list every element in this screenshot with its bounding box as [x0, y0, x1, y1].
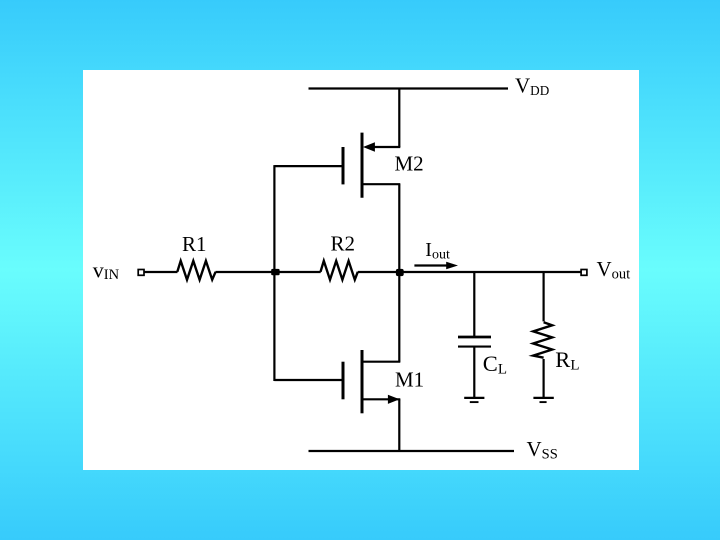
wire node to CL	[473, 272, 475, 336]
svg-text:M1: M1	[395, 368, 424, 392]
node B junction dot	[396, 269, 404, 276]
wire RL to ground	[542, 359, 544, 397]
transistor M2	[343, 133, 400, 198]
resistor R2	[321, 261, 358, 280]
wire R2 to node B	[358, 271, 400, 273]
output terminal	[581, 270, 587, 276]
wire CL to ground	[473, 348, 475, 398]
transistor M1	[343, 350, 400, 413]
capacitor CL	[458, 337, 491, 347]
wire R1 to node A	[216, 271, 321, 273]
input terminal	[138, 270, 144, 276]
wire node to RL	[542, 272, 544, 321]
wire M2 gate lead	[274, 165, 341, 167]
wire M1 gate lead	[274, 379, 341, 381]
resistor RL	[533, 322, 552, 357]
wire M2 source to output node	[398, 184, 400, 362]
svg-text:R2: R2	[331, 232, 356, 256]
VSS rail	[309, 450, 515, 452]
ground (CL)	[464, 398, 484, 402]
resistor R1	[177, 261, 215, 280]
wire M1 source to VSS	[398, 399, 400, 451]
node A junction dot	[271, 269, 279, 275]
wire VDD to M2 drain	[398, 89, 400, 148]
ground (RL)	[533, 398, 553, 402]
svg-text:R1: R1	[182, 232, 207, 256]
VDD rail	[309, 87, 509, 89]
wire feedback vertical	[273, 165, 275, 381]
wire input to R1	[145, 271, 178, 273]
Iout arrow	[414, 262, 458, 269]
white canvas	[83, 70, 639, 470]
wire node B to Vout	[399, 271, 580, 273]
svg-text:M2: M2	[395, 152, 424, 176]
